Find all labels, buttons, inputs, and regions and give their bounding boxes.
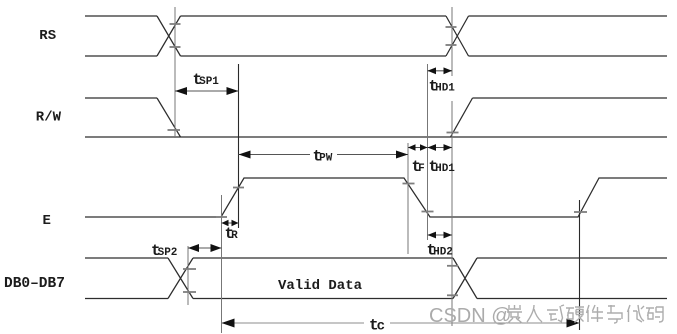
tick DB crossover2 upper: [447, 265, 458, 267]
measurement line V1 x=175: [174, 7, 176, 138]
svg-text:RS: RS: [39, 28, 56, 44]
tick RS crossover1 upper: [170, 23, 181, 25]
svg-text:CSDN @: CSDN @: [429, 305, 512, 327]
wire RS crossover 2: [446, 16, 469, 56]
tick R/W fall at V1: [168, 129, 181, 131]
char 与: [607, 305, 622, 323]
measurement line V2 x=452: [451, 7, 453, 326]
svg-text:tc: tc: [369, 317, 385, 334]
tick DB crossover1 lower: [183, 291, 196, 293]
char 嵌: [507, 305, 522, 323]
wire R/W falling edge: [157, 98, 181, 137]
watermark CJK strokes 嵌入式硬件与代码: [507, 305, 663, 323]
tick DB crossover2 lower: [447, 294, 458, 296]
wire R/W high rail left: [85, 97, 157, 99]
tick E fall at V4: [403, 183, 415, 185]
char 码: [646, 307, 663, 322]
arrow tHD1 top: [428, 67, 453, 74]
svg-text:Valid Data: Valid Data: [278, 278, 363, 294]
measurement line V4 x=408: [407, 143, 409, 254]
arrow tF: [408, 144, 428, 150]
tick DB crossover1 upper: [183, 268, 196, 270]
measurement line V5 x=427.5: [427, 64, 429, 240]
wire DB top rail: [85, 257, 667, 259]
svg-text:DB0–DB7: DB0–DB7: [4, 276, 65, 292]
arrow tSP1: [175, 87, 239, 95]
arrow tHD1 bottom: [428, 144, 453, 151]
svg-text:E: E: [43, 213, 51, 229]
arrow tC: [222, 319, 580, 328]
wire RS low rail: [85, 55, 667, 57]
arrow tR: [222, 220, 239, 226]
char 硬: [566, 307, 584, 323]
wire DB crossover 2: [453, 258, 477, 299]
char 式: [547, 305, 564, 322]
tick E rise2 at V6: [574, 211, 587, 213]
char 件: [587, 305, 604, 322]
char 代: [628, 305, 645, 322]
tick E rise1 foot at V7: [216, 216, 227, 218]
char 入: [527, 305, 542, 322]
wire DB crossover 1: [168, 258, 193, 299]
arrow tHD2: [428, 232, 453, 239]
arrow tSP2: [188, 244, 222, 252]
tick RS crossover2 lower: [446, 44, 457, 46]
tick E rise1 at V3: [233, 187, 244, 189]
measurement line VD x=188: [187, 246, 189, 305]
measurement line V6 x=579.5: [579, 200, 581, 330]
measurement line V7 x=221.5: [221, 195, 223, 333]
tick R/W rise at V2: [447, 132, 459, 134]
wire DB bottom rail: [85, 298, 667, 300]
tick E fall at V5: [422, 211, 434, 213]
wire R/W high rail right: [473, 97, 668, 99]
measurement line V3 x=238.5: [238, 64, 240, 228]
arrow tPW: [239, 151, 409, 159]
wire RS high rail: [85, 15, 667, 17]
wire RS crossover 1: [157, 16, 181, 56]
wire R/W low rail: [85, 136, 667, 138]
wire R/W rising edge: [451, 98, 473, 137]
tick RS crossover1 lower: [170, 46, 181, 48]
tick RS crossover2 upper: [446, 26, 457, 28]
svg-text:R/W: R/W: [36, 110, 62, 126]
wire E waveform: [85, 178, 667, 217]
